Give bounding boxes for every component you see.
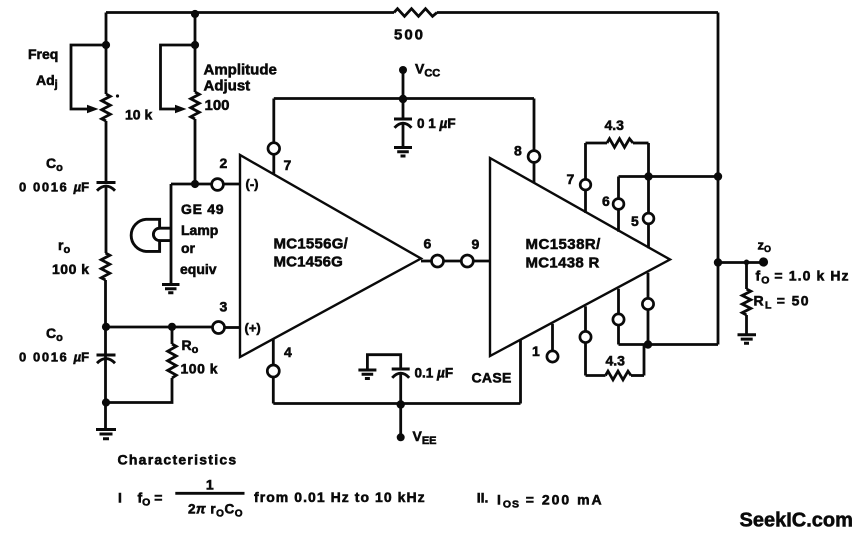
svg-text:100: 100 [205,97,230,114]
svg-text:Co: Co [46,325,63,344]
svg-text:100 k: 100 k [52,261,90,277]
svg-text:MC1538R/: MC1538R/ [526,236,602,253]
svg-text:0 1 µF: 0 1 µF [417,116,456,131]
svg-text:2: 2 [220,155,228,171]
svg-text:4: 4 [284,344,292,360]
svg-text:Adjust: Adjust [204,78,251,95]
svg-text:2π rOCO: 2π rOCO [188,502,243,520]
svg-text:100 k: 100 k [181,361,219,377]
svg-text:7: 7 [284,157,292,173]
svg-text:fO =: fO = [138,490,163,509]
svg-text:Characteristics: Characteristics [118,452,238,468]
svg-text:fO = 1.0 k Hz: fO = 1.0 k Hz [756,268,850,287]
svg-text:500: 500 [394,27,425,44]
svg-text:(+): (+) [245,321,261,336]
svg-text:7: 7 [567,171,575,187]
svg-text:IOS = 200 mA: IOS = 200 mA [497,492,604,511]
svg-text:Adj: Adj [36,72,58,91]
svg-text:5: 5 [631,213,639,229]
svg-text:equiv: equiv [180,261,217,277]
svg-text:or: or [181,240,196,256]
svg-text:Lamp: Lamp [181,222,218,238]
svg-text:MC1456G: MC1456G [274,254,343,271]
svg-text:CASE: CASE [472,370,512,386]
svg-text:3: 3 [220,299,228,315]
svg-text:from 0.01 Hz to 10 kHz: from 0.01 Hz to 10 kHz [254,489,426,505]
svg-text:0.1 µF: 0.1 µF [415,366,454,381]
svg-text:II.: II. [477,490,489,506]
svg-text:10 k: 10 k [125,107,152,123]
svg-text:Freq: Freq [28,46,58,62]
svg-text:8: 8 [514,143,522,159]
svg-text:9: 9 [472,236,480,252]
svg-text:SeekIC.com: SeekIC.com [740,510,853,532]
svg-text:RL = 50: RL = 50 [754,293,810,312]
svg-text:VEE: VEE [413,428,437,447]
svg-text:(-): (-) [246,177,259,192]
svg-text:ro: ro [58,237,70,256]
svg-text:0 0016 µF: 0 0016 µF [19,180,91,195]
svg-text:1: 1 [532,343,540,359]
svg-text:6: 6 [424,236,432,252]
svg-text:MC1438 R: MC1438 R [526,255,600,272]
svg-text:0 0016 µF: 0 0016 µF [19,350,91,365]
svg-text:Ro: Ro [182,337,199,356]
svg-text:zO: zO [758,237,772,254]
svg-text:VCC: VCC [415,61,440,80]
svg-text:4.3: 4.3 [605,117,625,133]
svg-text:1: 1 [206,477,214,493]
svg-text:MC1556G/: MC1556G/ [274,236,349,253]
svg-text:Amplitude: Amplitude [204,62,277,79]
svg-text:Co: Co [46,155,63,174]
svg-text:4.3: 4.3 [606,353,626,369]
svg-text:GE 49: GE 49 [181,201,224,217]
svg-text:I: I [118,490,122,506]
svg-text:6: 6 [602,193,610,209]
